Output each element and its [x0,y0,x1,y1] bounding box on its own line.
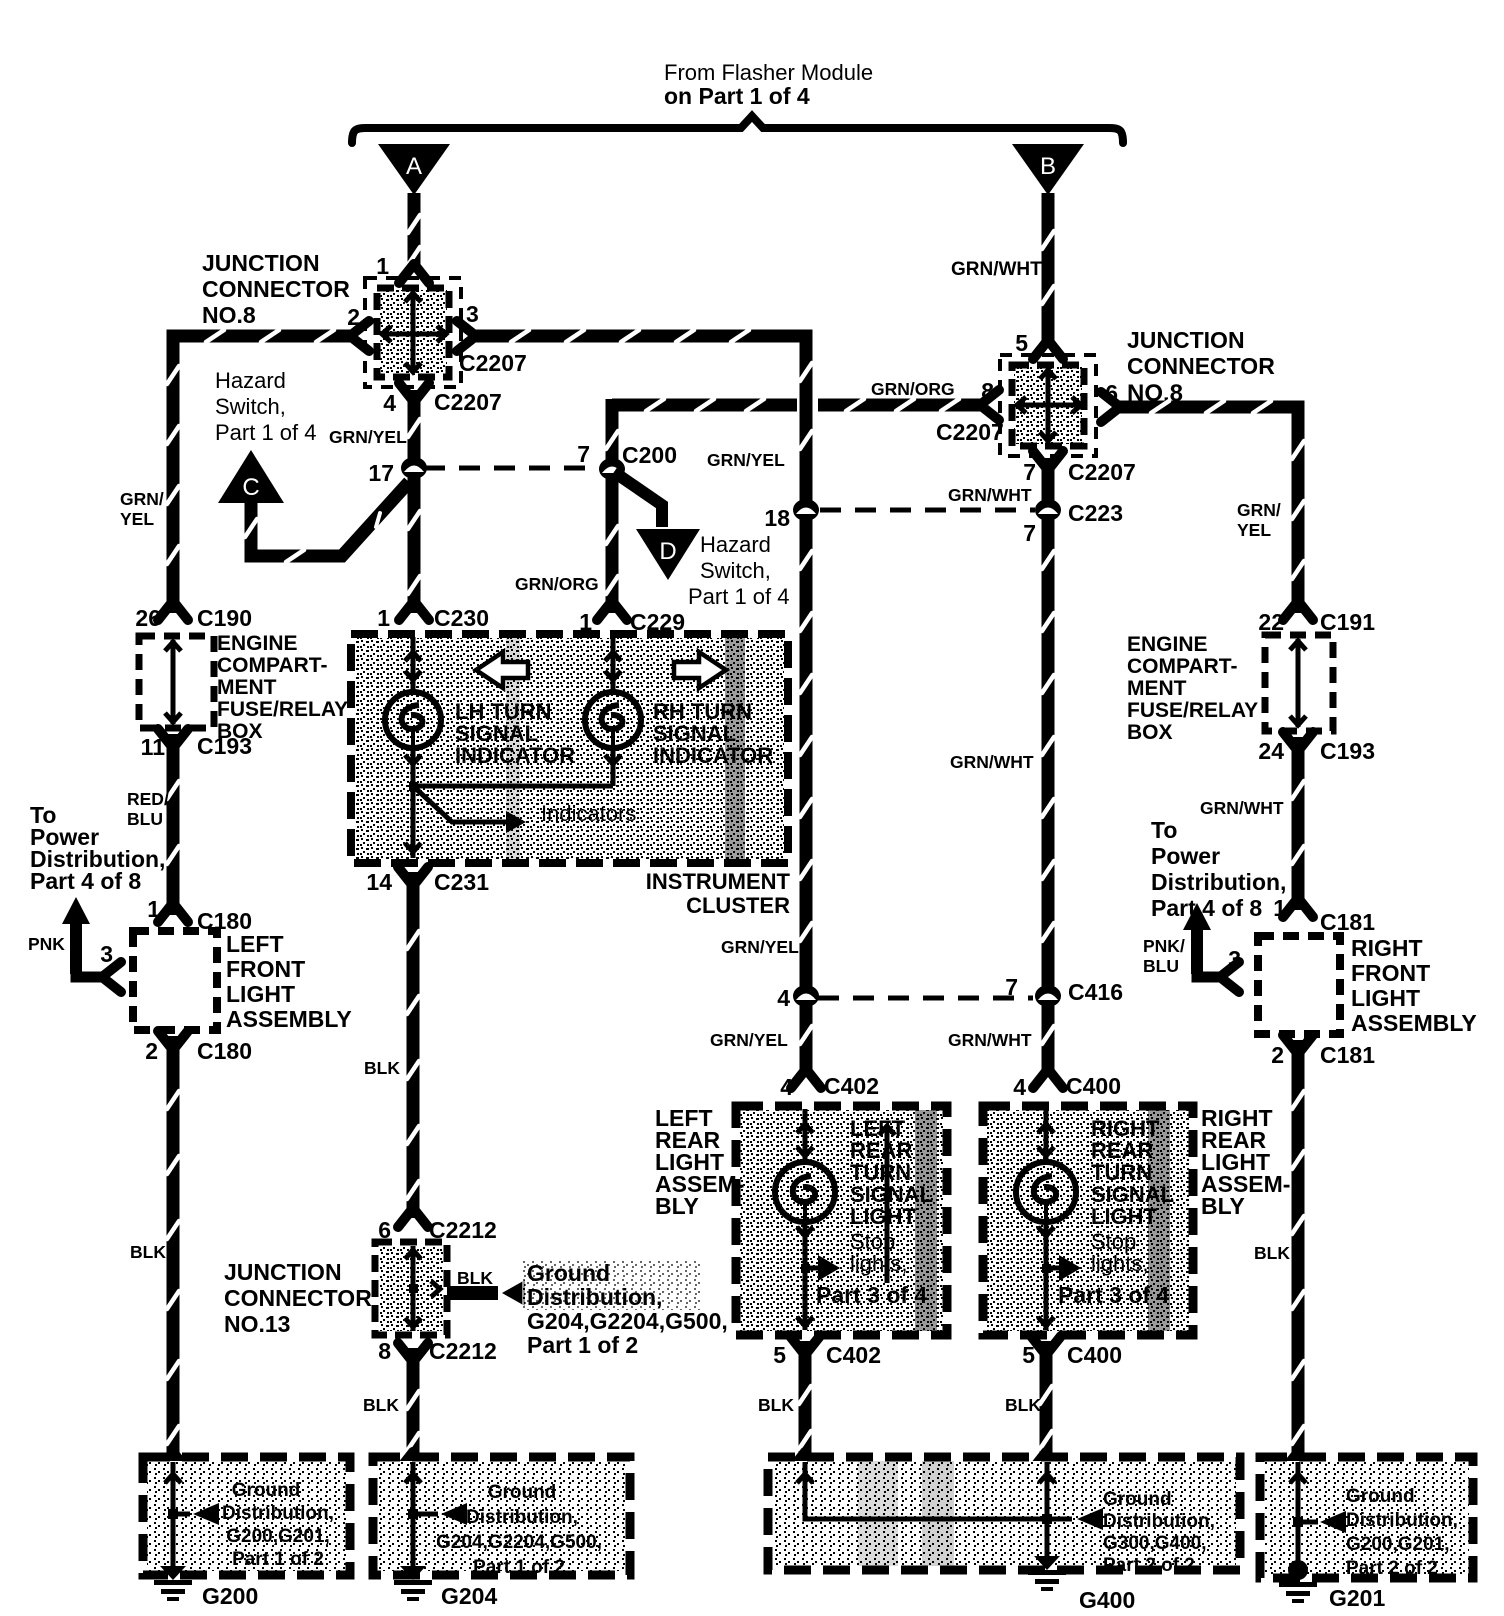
svg-text:Ground: Ground [1103,1489,1172,1510]
svg-text:C2207: C2207 [459,350,527,376]
ground symbol G400 [1034,1556,1060,1570]
svg-text:4: 4 [1013,1074,1026,1100]
left rear stop-lights arrow [885,1126,890,1283]
ground G204 internal wire [411,1462,416,1566]
svg-text:C181: C181 [1320,909,1375,935]
ground distribution box G201 fill [1264,1461,1469,1574]
svg-text:C223: C223 [1068,500,1123,526]
svg-text:MENT: MENT [217,676,277,699]
svg-text:FRONT: FRONT [1351,960,1430,986]
svg-text:INDICATOR: INDICATOR [455,743,575,768]
engine compartment fuse/relay box left [139,636,214,728]
wire BLK right front to ground G201 [1292,1040,1305,1462]
svg-text:YEL: YEL [120,509,154,529]
svg-text:LIGHT: LIGHT [1351,985,1420,1011]
svg-text:COMPART-: COMPART- [217,654,327,677]
svg-text:G204,G2204,G500,: G204,G2204,G500, [436,1532,602,1553]
svg-text:C416: C416 [1068,979,1123,1005]
svg-text:17: 17 [368,460,394,486]
svg-text:2: 2 [145,1038,158,1064]
svg-text:Switch,: Switch, [700,558,771,583]
svg-text:A: A [406,153,422,180]
right rear turn signal lamp [1016,1162,1076,1222]
svg-text:C400: C400 [1067,1342,1122,1368]
cluster left block arrow [476,652,528,688]
junction connector NO.8 right: internal cross arrows [1046,369,1051,442]
left rear lamp wire bottom [803,1224,808,1330]
right rear light assembly box fill [987,1110,1189,1331]
svg-text:G200,G201,: G200,G201, [226,1526,330,1547]
right front light assembly box [1258,936,1340,1034]
dashed link 18 to C223 [820,508,1035,513]
svg-text:GRN/WHT: GRN/WHT [1200,798,1284,818]
svg-text:C231: C231 [434,869,489,895]
cluster LH turn signal indicator lamp [385,692,441,748]
ground G200 internal wire [171,1462,176,1566]
svg-text:FUSE/RELAY: FUSE/RELAY [217,698,348,721]
in-line connector C416 [1035,985,1061,1007]
svg-text:GRN/YEL: GRN/YEL [710,1030,788,1050]
svg-text:FRONT: FRONT [226,956,305,982]
svg-text:Part 3 of 4: Part 3 of 4 [1058,1282,1169,1308]
ground symbol G204 [400,1566,426,1580]
svg-text:Hazard: Hazard [700,532,771,557]
svg-text:1: 1 [377,605,390,631]
svg-text:BLY: BLY [1201,1193,1245,1219]
svg-text:C181: C181 [1320,1042,1375,1068]
svg-text:RED/: RED/ [127,789,169,809]
svg-text:LIGHT: LIGHT [1091,1204,1158,1229]
ground distribution box G204 [373,1457,630,1575]
svg-text:Part 3 of 4: Part 3 of 4 [816,1282,927,1308]
svg-text:BLK: BLK [130,1242,166,1262]
svg-text:NO.8: NO.8 [202,302,256,328]
svg-text:C2207: C2207 [434,389,502,415]
right rear lamp wire top [1044,1109,1049,1162]
ground symbol G201 [1288,1560,1308,1580]
svg-text:G204: G204 [441,1583,497,1609]
svg-text:GRN/YEL: GRN/YEL [707,450,785,470]
svg-text:BOX: BOX [1127,721,1173,744]
off-page connector triangle A [378,144,450,195]
wire to hazard switch D [614,472,662,527]
svg-text:Part 1 of 2: Part 1 of 2 [473,1557,565,1578]
svg-text:JUNCTION: JUNCTION [202,250,320,276]
svg-text:GRN/: GRN/ [1237,500,1281,520]
svg-text:ASSEMBLY: ASSEMBLY [226,1006,352,1032]
svg-text:Part 4 of 8: Part 4 of 8 [30,868,141,894]
svg-text:26: 26 [135,605,161,631]
left rear light assembly dark band [915,1110,937,1331]
svg-text:8: 8 [378,1338,391,1364]
junction connector NO.8 right: inner box fill [1014,367,1082,444]
svg-text:3: 3 [100,941,113,967]
cluster internal bus wire [413,784,613,789]
svg-text:Ground: Ground [527,1260,610,1286]
svg-text:4: 4 [780,1074,793,1100]
ground distribution box G400 [768,1457,1240,1570]
svg-text:INDICATOR: INDICATOR [653,743,773,768]
svg-text:8: 8 [981,378,994,404]
svg-text:Ground: Ground [1346,1486,1415,1507]
wire RED/BLU down to C180 [167,734,180,915]
svg-text:BLK: BLK [457,1268,493,1288]
cluster LH lamp wire top [411,637,416,693]
svg-text:Distribution,: Distribution, [466,1507,578,1528]
wire BLK cluster to junction connector no.13 [407,872,420,1218]
svg-text:BLK: BLK [1005,1395,1041,1415]
cluster RH lamp wire bottom [611,748,616,786]
svg-text:C193: C193 [1320,738,1375,764]
svg-text:C191: C191 [1320,609,1375,635]
svg-text:Power: Power [1151,843,1220,869]
in-line connector 18 [793,499,819,521]
wire GRN/YEL from pin4 down to C230 [408,390,421,613]
svg-text:MENT: MENT [1127,677,1187,700]
svg-text:Distribution,: Distribution, [222,1503,334,1524]
dashed link 4 to C416 [818,996,1033,1001]
svg-text:G200: G200 [202,1583,258,1609]
svg-text:GRN/YEL: GRN/YEL [329,427,407,447]
svg-text:C402: C402 [826,1342,881,1368]
junction connector NO.13 internal wire [411,1246,416,1331]
ground distribution box G201 [1260,1457,1473,1578]
svg-text:CONNECTOR: CONNECTOR [224,1285,372,1311]
left rear lamp wire top [803,1109,808,1162]
svg-text:C230: C230 [434,605,489,631]
cluster exit wire [411,786,416,858]
instrument cluster faint band [506,638,520,859]
instrument cluster box fill [355,638,784,859]
svg-text:Distribution,: Distribution, [1151,869,1286,895]
svg-text:GRN/YEL: GRN/YEL [721,937,799,957]
svg-text:Indicators: Indicators [541,801,636,826]
junction connector NO.13 dashed box [375,1242,447,1335]
cluster RH lamp wire top [611,637,616,693]
wire BLK right rear to ground G400 [1040,1341,1053,1462]
svg-text:3: 3 [466,301,479,327]
svg-text:CONNECTOR: CONNECTOR [202,276,350,302]
ground G400 internal wires [805,1462,1047,1519]
wire GRN/YEL from pin6 right then down to C191 [1112,407,1298,613]
left rear light assembly box [736,1106,947,1335]
svg-text:14: 14 [366,869,392,895]
svg-text:From Flasher Module: From Flasher Module [664,60,873,85]
svg-text:G400: G400 [1079,1587,1135,1613]
svg-text:3: 3 [1228,946,1241,972]
svg-text:Distribution,: Distribution, [1103,1511,1215,1532]
svg-text:Part 1 of 4: Part 1 of 4 [215,420,317,445]
svg-text:Part 2 of 2: Part 2 of 2 [1346,1558,1438,1579]
junction connector NO.8 right: inner dashed box [1012,365,1084,446]
svg-text:7: 7 [1023,520,1036,546]
svg-text:RIGHT: RIGHT [1351,935,1423,961]
svg-text:ENGINE: ENGINE [217,632,298,655]
svg-text:CLUSTER: CLUSTER [686,893,790,918]
svg-text:ENGINE: ENGINE [1127,633,1208,656]
svg-text:BLK: BLK [363,1395,399,1415]
svg-text:GRN/ORG: GRN/ORG [871,379,955,399]
svg-text:GRN/WHT: GRN/WHT [951,259,1042,280]
ground distribution box G200 fill [147,1461,346,1571]
svg-text:Distribution,: Distribution, [1346,1510,1458,1531]
svg-text:C190: C190 [197,605,252,631]
svg-text:1: 1 [1273,895,1286,921]
svg-text:18: 18 [764,505,790,531]
svg-text:LEFT: LEFT [226,931,284,957]
ground G400 faint bands [858,1461,898,1566]
svg-text:G200,G201,: G200,G201, [1346,1534,1450,1555]
svg-text:7: 7 [1005,974,1018,1000]
wire GRN/WHT pin7 down to C400 [1042,458,1055,1077]
svg-text:Part 2 of 2: Part 2 of 2 [1103,1555,1195,1576]
svg-text:GRN/: GRN/ [120,489,164,509]
off-page connector triangle D (hazard switch) [636,529,700,580]
to power distribution left arrow PNK [62,897,90,924]
off-page connector triangle B [1012,144,1084,195]
svg-text:NO.13: NO.13 [224,1311,290,1337]
to power distribution right arrow PNK/BLU [1183,903,1211,930]
svg-text:4: 4 [383,390,396,416]
junction connector NO.8 left: inner box fill [379,290,447,375]
svg-text:BLU: BLU [127,809,163,829]
wire BLK no.13 to ground G204 [407,1348,420,1462]
svg-text:Part 1 of 4: Part 1 of 4 [688,584,790,609]
cluster LH lamp wire bottom [411,748,416,786]
svg-text:7: 7 [577,441,590,467]
wire GRN/ORG horizontal to pin 8 [612,399,797,412]
svg-text:C2207: C2207 [936,419,1004,445]
svg-text:To: To [1151,817,1177,843]
svg-text:1: 1 [147,896,160,922]
in-line connector C200 [599,458,625,480]
in-line connector 4 (C402 side) [793,985,819,1007]
engine compartment fuse/relay box left internal wire [171,640,176,724]
svg-text:YEL: YEL [1237,520,1271,540]
svg-text:lights,: lights, [1091,1251,1148,1276]
junction connector NO.8 right: outer dashed frame [1000,355,1096,456]
ground symbol G200 [160,1566,186,1580]
cluster RH turn signal indicator lamp [585,692,641,748]
wire GRN/WHT from B to junction connector no.8 right pin 5 [1042,193,1055,348]
wire hazard C to junction 17 [251,482,409,556]
svg-text:22: 22 [1258,609,1284,635]
wire GRN/YEL from pin3 right then down (center) [468,336,806,1077]
left rear turn signal lamp [775,1162,835,1222]
left rear light assembly box fill [740,1110,943,1331]
dashed link 17 to C200 [424,466,598,471]
svg-text:C402: C402 [824,1073,879,1099]
svg-text:1: 1 [376,253,389,279]
ground distribution box G204 fill [377,1461,626,1571]
wire GRN/ORG corner down to C229 [606,399,619,613]
brace from flasher module [352,116,1123,143]
svg-text:G300,G400,: G300,G400, [1103,1533,1207,1554]
svg-text:C400: C400 [1066,1073,1121,1099]
wire BLK left front to ground [167,1036,180,1462]
svg-text:JUNCTION: JUNCTION [1127,327,1245,353]
ground distribution G204 speckle [522,1260,700,1310]
svg-text:BLU: BLU [1143,956,1179,976]
ground distribution box G400 fill [772,1461,1236,1566]
svg-text:GRN/WHT: GRN/WHT [948,1030,1032,1050]
in-line connector C223 [1035,499,1061,521]
off-page connector triangle C (hazard switch) [218,450,284,503]
instrument cluster dark band [725,638,745,859]
svg-text:Ground: Ground [488,1482,557,1503]
junction connector NO.13 box fill [379,1246,443,1331]
svg-text:GRN/ORG: GRN/ORG [515,574,599,594]
wire GRN/YEL from pin2 left and down to C190 [173,336,358,613]
svg-text:C229: C229 [630,609,685,635]
svg-text:Part 4 of 8: Part 4 of 8 [1151,895,1262,921]
svg-text:4: 4 [777,985,790,1011]
svg-text:BLK: BLK [364,1058,400,1078]
svg-text:Part 1 of 2: Part 1 of 2 [232,1549,324,1570]
svg-text:INSTRUMENT: INSTRUMENT [646,869,791,894]
svg-text:C2207: C2207 [1068,459,1136,485]
junction connector NO.8 left: inner dashed box [377,288,449,377]
cluster right block arrow [674,652,726,688]
svg-text:GRN/WHT: GRN/WHT [950,752,1034,772]
svg-text:5: 5 [773,1342,786,1368]
svg-text:LIGHT: LIGHT [850,1204,917,1229]
svg-text:BLK: BLK [758,1395,794,1415]
svg-text:G201: G201 [1329,1585,1385,1611]
svg-text:Ground: Ground [232,1480,301,1501]
svg-text:C2212: C2212 [429,1338,497,1364]
wire BLK stub to ground distribution [447,1286,498,1300]
instrument cluster dashed box [351,634,788,863]
svg-text:BLY: BLY [655,1193,699,1219]
left front light assembly box [133,931,217,1030]
svg-text:FUSE/RELAY: FUSE/RELAY [1127,699,1258,722]
svg-text:C193: C193 [197,733,252,759]
svg-text:GRN/WHT: GRN/WHT [948,485,1032,505]
engine compartment fuse/relay box right [1265,635,1333,731]
svg-text:C200: C200 [622,442,677,468]
wire BLK left rear to ground G400 [799,1341,812,1462]
svg-text:B: B [1040,153,1056,180]
svg-text:LIGHT: LIGHT [226,981,295,1007]
engine compartment fuse/relay box right internal wire [1296,639,1301,727]
svg-text:Hazard: Hazard [215,368,286,393]
svg-text:C180: C180 [197,1038,252,1064]
svg-text:BLK: BLK [1254,1243,1290,1263]
ground distribution box G200 [143,1457,350,1575]
svg-text:COMPART-: COMPART- [1127,655,1237,678]
svg-text:5: 5 [1015,330,1028,356]
svg-text:Part 1 of 2: Part 1 of 2 [527,1332,638,1358]
wire from A to junction connector no.8 pin 1 [408,193,421,272]
svg-text:Distribution,: Distribution, [527,1284,662,1310]
svg-text:Switch,: Switch, [215,394,286,419]
svg-text:D: D [659,538,676,565]
svg-text:C: C [242,474,259,501]
svg-text:1: 1 [579,609,592,635]
svg-text:on Part 1 of 4: on Part 1 of 4 [664,83,810,109]
ground G201 internal wire [1296,1462,1301,1566]
svg-text:G204,G2204,G500,: G204,G2204,G500, [527,1308,728,1334]
svg-text:PNK: PNK [28,934,65,954]
svg-text:PNK/: PNK/ [1143,936,1185,956]
svg-text:ASSEMBLY: ASSEMBLY [1351,1010,1477,1036]
svg-text:JUNCTION: JUNCTION [224,1259,342,1285]
right rear lamp wire bottom [1044,1224,1049,1330]
svg-text:CONNECTOR: CONNECTOR [1127,353,1275,379]
right rear light assembly box [983,1106,1193,1335]
svg-text:24: 24 [1258,738,1284,764]
right rear light assembly dark band [1148,1110,1170,1331]
wire GRN/WHT down to C181 [1292,737,1305,910]
svg-text:7: 7 [1023,459,1036,485]
svg-text:2: 2 [1271,1042,1284,1068]
svg-text:lights,: lights, [850,1251,907,1276]
junction connector NO.8 left: internal cross arrows [411,292,416,373]
cluster indicators stub [413,786,506,822]
junction connector NO.8 left: outer dashed frame [365,278,461,387]
in-line connector 17 [401,457,427,479]
